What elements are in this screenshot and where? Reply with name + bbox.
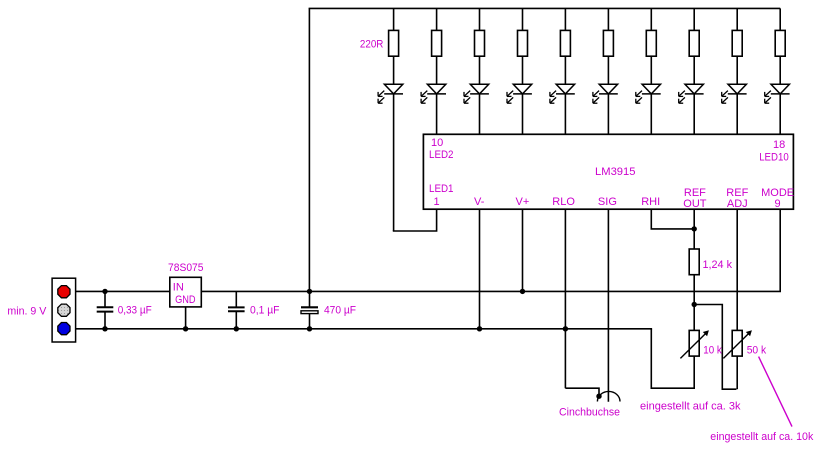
connector pad: +9V (red) xyxy=(58,286,70,298)
wire: column 8 bus-to-resistor xyxy=(693,8,695,30)
resistor R3 220R xyxy=(475,30,485,56)
potentiometer P2 50 k xyxy=(723,330,752,358)
cinch jack barrel arc xyxy=(597,391,620,401)
wire: column 10 bus-to-resistor xyxy=(779,8,781,30)
wire: shield run from RLO node to jack xyxy=(565,388,599,396)
resistor R4 220R xyxy=(518,30,528,56)
svg-text:eingestellt auf ca. 10k: eingestellt auf ca. 10k xyxy=(710,431,813,443)
wire: divider node to 50k bottom xyxy=(694,305,736,390)
junction: RLO on ground rail xyxy=(563,326,568,331)
svg-text:1: 1 xyxy=(434,196,440,208)
op-amp/IC U1 LM3915 body xyxy=(423,134,793,209)
wire: column 3 resistor-to-LED xyxy=(479,56,481,84)
connector pad: ground (blue) xyxy=(58,323,70,335)
resistor R5 220R xyxy=(560,30,570,56)
junction: C3 bottom xyxy=(307,326,312,331)
svg-text:LM3915: LM3915 xyxy=(595,166,636,178)
LED D1 xyxy=(378,84,403,103)
LED D2 xyxy=(421,84,446,103)
svg-text:78S075: 78S075 xyxy=(168,262,204,274)
svg-text:10 k: 10 k xyxy=(703,345,722,357)
wire: pin1 LED1 stub and joint to column 1 xyxy=(393,209,437,231)
wire: RHI stub to REF OUT xyxy=(651,209,694,229)
wire: LED7 cathode to IC top pin xyxy=(650,94,652,134)
voltage regulator U2 78S075 body xyxy=(170,277,202,307)
svg-text:GND: GND xyxy=(175,294,196,306)
svg-text:0,1 µF: 0,1 µF xyxy=(250,305,280,317)
svg-text:0,33 µF: 0,33 µF xyxy=(118,305,152,317)
wire: LED9 cathode to IC top pin xyxy=(736,94,738,134)
wire: ground rail xyxy=(68,328,652,330)
wire: LED5 cathode to IC top pin xyxy=(564,94,566,134)
junction: C2 bottom xyxy=(234,326,239,331)
svg-text:SIG: SIG xyxy=(598,196,617,208)
resistor R9 220R xyxy=(732,30,742,56)
wire: column 1 resistor-to-LED xyxy=(393,56,395,84)
wire: V+ pin down to supply rail xyxy=(522,209,524,291)
wire: LED4 cathode to IC top pin xyxy=(522,94,524,134)
wire: column 9 resistor-to-LED xyxy=(736,56,738,84)
wire: column 6 resistor-to-LED xyxy=(607,56,609,84)
wire: LED10 cathode to IC top pin xyxy=(779,94,781,134)
junction: C1 bottom xyxy=(102,326,107,331)
capacitor C2 0,1 uF xyxy=(228,291,245,328)
junction: V- on ground rail xyxy=(477,326,482,331)
resistor R7 220R xyxy=(646,30,656,56)
wire: column 1 bus-to-resistor xyxy=(393,8,395,30)
wire: V+ rail from regulator to MODE xyxy=(201,290,781,292)
capacitor C3 470 uF electrolytic xyxy=(301,291,318,328)
junction: V+ on supply rail xyxy=(520,289,525,294)
junction: C3 top joins left bus drop xyxy=(307,289,312,294)
wire: REF ADJ pin down to 50k top xyxy=(736,209,738,330)
wire: LED1 cathode down left of IC xyxy=(393,94,395,231)
LED D3 xyxy=(464,84,489,103)
wire: MODE pin down to supply rail end xyxy=(779,209,781,291)
junction: jack shield contact xyxy=(596,394,601,399)
LED D8 xyxy=(679,84,704,103)
pin label REF OUT xyxy=(683,187,707,210)
svg-text:min. 9 V: min. 9 V xyxy=(7,305,47,317)
svg-text:220R: 220R xyxy=(360,38,384,50)
wire: column 9 bus-to-resistor xyxy=(736,8,738,30)
wire: LED3 cathode to IC top pin xyxy=(479,94,481,134)
wire: top anode bus xyxy=(309,7,781,9)
LED D4 xyxy=(507,84,532,103)
svg-text:18: 18 xyxy=(773,139,785,151)
wire: column 5 bus-to-resistor xyxy=(564,8,566,30)
svg-text:1,24 k: 1,24 k xyxy=(703,259,733,271)
wire: column 2 bus-to-resistor xyxy=(436,8,438,30)
wire: RLO pin down through ground rail to jack shield run xyxy=(564,209,566,388)
wire: LED8 cathode to IC top pin xyxy=(693,94,695,134)
LED D7 xyxy=(636,84,661,103)
svg-text:LED10: LED10 xyxy=(759,151,789,163)
wire: column 7 resistor-to-LED xyxy=(650,56,652,84)
wire: column 5 resistor-to-LED xyxy=(564,56,566,84)
pointer line from 50k to note xyxy=(759,357,792,427)
resistor R10 220R xyxy=(775,30,785,56)
svg-text:9: 9 xyxy=(775,198,781,210)
pin label REF ADJ xyxy=(726,187,748,210)
wire: LED6 cathode to IC top pin xyxy=(607,94,609,134)
wire: REF OUT pin down to R11 xyxy=(693,209,695,249)
wire: regulator GND stub xyxy=(185,307,187,329)
svg-text:eingestellt auf ca. 3k: eingestellt auf ca. 3k xyxy=(640,401,741,413)
resistor R6 220R xyxy=(603,30,613,56)
svg-text:RHI: RHI xyxy=(641,196,660,208)
wire: 10k bottom lead xyxy=(693,356,695,388)
resistor R2 220R xyxy=(432,30,442,56)
wire: column 10 resistor-to-LED xyxy=(779,56,781,84)
wire: left bus drop to V+ rail xyxy=(308,8,310,291)
wire: column 7 bus-to-resistor xyxy=(650,8,652,30)
svg-text:Cinchbuchse: Cinchbuchse xyxy=(559,407,620,419)
LED D6 xyxy=(593,84,618,103)
svg-text:RLO: RLO xyxy=(552,196,575,208)
resistor R8 220R xyxy=(689,30,699,56)
junction: divider node below R11 xyxy=(692,302,697,307)
svg-text:50 k: 50 k xyxy=(747,345,767,357)
capacitor C1 0,33 uF xyxy=(97,291,114,328)
LED D10 xyxy=(765,84,790,103)
wire: V- pin down to ground rail xyxy=(479,209,481,329)
svg-text:OUT: OUT xyxy=(683,198,707,210)
potentiometer P1 10 k xyxy=(680,330,709,358)
connector pad: middle (grey) xyxy=(58,304,70,316)
wire: 50k bottom lead xyxy=(736,356,738,389)
wire: V+ rail from connector to regulator xyxy=(68,290,170,292)
svg-text:V-: V- xyxy=(474,196,485,208)
LED D9 xyxy=(722,84,747,103)
LED D5 xyxy=(550,84,575,103)
wire: column 6 bus-to-resistor xyxy=(607,8,609,30)
wire: column 2 resistor-to-LED xyxy=(436,56,438,84)
connector X1 housing xyxy=(52,278,76,342)
wire: ground rail drop to 10k bottom xyxy=(651,329,695,388)
resistor R11 1,24 k xyxy=(689,249,699,275)
junction: C1 top xyxy=(102,289,107,294)
junction: RHI joins REF OUT xyxy=(692,226,697,231)
resistor R1 220R xyxy=(389,30,399,56)
wire: LED2 cathode to IC top pin xyxy=(436,94,438,134)
wire: column 4 resistor-to-LED xyxy=(522,56,524,84)
svg-text:ADJ: ADJ xyxy=(727,198,748,210)
svg-text:10: 10 xyxy=(431,137,443,149)
junction: regulator GND on ground rail xyxy=(183,326,188,331)
wire: column 3 bus-to-resistor xyxy=(479,8,481,30)
svg-text:V+: V+ xyxy=(516,196,530,208)
svg-text:LED1: LED1 xyxy=(429,183,454,195)
wire: column 4 bus-to-resistor xyxy=(522,8,524,30)
pin label MODE 9 xyxy=(761,187,794,210)
wire: R11 to divider junction xyxy=(693,275,695,331)
wire: column 8 resistor-to-LED xyxy=(693,56,695,84)
svg-text:LED2: LED2 xyxy=(429,149,454,161)
svg-text:470 µF: 470 µF xyxy=(324,305,356,317)
wire: SIG pin down to cinch jack tip xyxy=(607,209,609,402)
svg-text:IN: IN xyxy=(173,282,184,294)
